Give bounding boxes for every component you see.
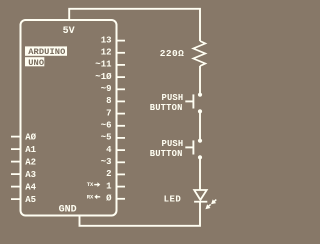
- svg-text:PUSH: PUSH: [161, 139, 183, 149]
- svg-text:A5: A5: [25, 195, 36, 205]
- tick pin6: [117, 125, 126, 127]
- svg-text:~11: ~11: [95, 60, 112, 70]
- svg-text:8: 8: [106, 96, 111, 106]
- svg-text:~3: ~3: [101, 157, 112, 167]
- svg-text:1: 1: [106, 181, 112, 191]
- right pin number labels: [95, 35, 112, 203]
- tick pin3: [117, 161, 126, 163]
- tick pin8: [117, 100, 126, 102]
- wire resistor to push button 1: [199, 66, 201, 95]
- svg-text:A2: A2: [25, 157, 36, 167]
- left pin labels: [25, 132, 36, 205]
- svg-text:5V: 5V: [63, 26, 75, 37]
- right pin ticks 13..0: [117, 41, 126, 199]
- svg-text:A3: A3: [25, 170, 36, 180]
- svg-text:GND: GND: [59, 204, 77, 215]
- svg-text:LED: LED: [164, 195, 182, 205]
- svg-text:~1Ø: ~1Ø: [95, 72, 112, 82]
- LED emission arrow 1: [209, 198, 218, 206]
- push button S2: [185, 139, 202, 160]
- push button S1: [185, 93, 202, 114]
- svg-text:~5: ~5: [101, 133, 112, 143]
- tick pin10: [117, 76, 126, 78]
- svg-text:2: 2: [106, 169, 111, 179]
- tick pin13: [117, 40, 126, 42]
- svg-text:TX: TX: [87, 181, 94, 188]
- tick pin5: [117, 137, 126, 139]
- arduino U1 board outline: [21, 20, 117, 216]
- tick pin11: [117, 64, 126, 66]
- svg-text:BUTTON: BUTTON: [150, 149, 183, 159]
- svg-text:Ø: Ø: [106, 194, 112, 204]
- svg-text:BUTTON: BUTTON: [150, 103, 183, 113]
- svg-text:A4: A4: [25, 182, 36, 192]
- tick pinA0: [11, 136, 21, 138]
- svg-text:12: 12: [101, 48, 112, 58]
- LED emission arrow 2: [204, 203, 213, 211]
- resistor R1 zigzag: [193, 41, 205, 66]
- left pin ticks A0..A5: [11, 137, 21, 200]
- svg-text:RX: RX: [87, 193, 94, 200]
- svg-text:A1: A1: [25, 145, 36, 155]
- tick pin1: [117, 186, 126, 188]
- svg-text:~9: ~9: [101, 84, 112, 94]
- svg-text:7: 7: [106, 108, 111, 118]
- tick pin12: [117, 52, 126, 54]
- tick pin0: [117, 198, 126, 200]
- tick pinA1: [11, 148, 21, 150]
- svg-text:4: 4: [106, 145, 112, 155]
- wire push button 1 to push button 2: [199, 111, 201, 140]
- badge UNO: [25, 57, 44, 66]
- svg-text:UNO: UNO: [28, 58, 44, 68]
- tick pinA3: [11, 173, 21, 175]
- LED cathode bar: [194, 201, 207, 203]
- tick pinA5: [11, 198, 21, 200]
- svg-text:ARDUINO: ARDUINO: [28, 47, 65, 57]
- svg-text:PUSH: PUSH: [161, 93, 183, 103]
- LED D1 triangle: [194, 190, 207, 200]
- wire push button 2 to LED: [199, 157, 201, 190]
- badge ARDUINO: [25, 46, 67, 55]
- svg-text:~6: ~6: [101, 121, 112, 131]
- tick pin4: [117, 149, 126, 151]
- svg-text:AØ: AØ: [25, 132, 36, 142]
- tick pinA4: [11, 186, 21, 188]
- tick pin9: [117, 88, 126, 90]
- tick pin7: [117, 113, 126, 115]
- svg-text:220Ω: 220Ω: [160, 48, 184, 59]
- tick pin2: [117, 173, 126, 175]
- tick pinA2: [11, 161, 21, 163]
- wire 5V stub to top rail: [69, 9, 200, 41]
- svg-text:13: 13: [101, 35, 112, 45]
- wire LED to GND: [80, 202, 201, 226]
